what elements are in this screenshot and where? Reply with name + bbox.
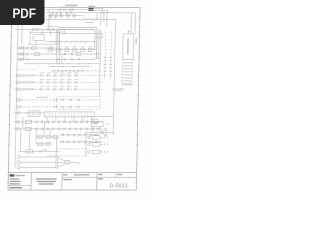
relay box K1 xyxy=(33,35,44,41)
low contact row 1 xyxy=(14,121,103,123)
left cell divider xyxy=(8,185,31,187)
drops below strip xyxy=(46,117,48,122)
left cell bottom text xyxy=(9,187,22,188)
zone tick marks on left and right border xyxy=(7,17,141,184)
wire: rung E xyxy=(15,28,60,30)
heater circuit row 3 xyxy=(16,88,19,91)
bus join line xyxy=(94,58,100,60)
vertical joining coil rows xyxy=(23,46,25,59)
row of boxes y137 xyxy=(36,136,59,138)
ticks right of device box xyxy=(105,123,107,125)
actuator row 1 xyxy=(88,136,91,139)
wire to terminal strip xyxy=(13,112,44,114)
contact rows extending right xyxy=(59,134,99,136)
wire: box row xyxy=(46,49,95,51)
slant contacts xyxy=(50,40,52,43)
company address lines xyxy=(10,178,20,179)
coil row 3 extension xyxy=(49,58,94,60)
tiny connector marks on cables xyxy=(104,57,107,59)
label above sensor rows xyxy=(36,97,48,98)
terminal strip TS1 xyxy=(44,112,95,117)
connector block on cable xyxy=(65,160,70,164)
cable conductors xyxy=(20,156,56,158)
coil row 2 xyxy=(17,53,59,55)
label above device box xyxy=(90,118,98,121)
extra rung under loop xyxy=(60,33,95,35)
sensor loop row 2 xyxy=(16,106,19,109)
faint note text right xyxy=(112,88,124,89)
tiny note under rung D xyxy=(86,22,94,23)
long right vertical wire xyxy=(113,19,115,134)
actuator row 3 xyxy=(87,151,90,154)
cable tail xyxy=(70,161,80,163)
title block outline xyxy=(8,172,136,174)
wire: rung C xyxy=(48,15,84,17)
scan speckle noise xyxy=(10,11,138,187)
verticals mid xyxy=(56,44,58,64)
heater circuit row 2 xyxy=(16,81,19,84)
centre title text lines xyxy=(36,178,57,179)
cable terminal circles xyxy=(17,155,20,158)
lamp on strip feed xyxy=(17,112,20,115)
contacts on rung B xyxy=(51,12,53,14)
faint header text above frame xyxy=(65,5,78,7)
dashed terminal column below box xyxy=(122,59,125,85)
cable clamp xyxy=(55,156,57,169)
coil row 1 xyxy=(17,47,56,49)
cable loop inner xyxy=(59,29,95,50)
junction dots on rung B xyxy=(100,12,101,13)
stub above box xyxy=(127,30,129,34)
drawing frame border xyxy=(8,8,140,190)
inter-rung verticals top band xyxy=(51,13,53,16)
svg-text:D-5031: D-5031 xyxy=(110,183,128,189)
title block row line xyxy=(62,176,136,178)
ticks and label on row y151 xyxy=(39,150,41,152)
junction row y66.4 xyxy=(49,65,90,67)
label text above rung A xyxy=(61,7,75,8)
wire: rung G xyxy=(28,43,60,45)
wire: rung B xyxy=(46,12,112,14)
right vertical feeders xyxy=(130,13,132,34)
heater circuit row 1 xyxy=(16,74,19,77)
tiny text right of tall box xyxy=(135,38,137,45)
page background xyxy=(0,0,149,198)
ground cluster xyxy=(104,128,107,131)
cable loop outer xyxy=(57,28,97,59)
verticals lower-left xyxy=(19,129,21,152)
wire under badge edge xyxy=(46,25,58,27)
dark terminal blocks TB1 xyxy=(88,8,93,9)
left dash stubs xyxy=(16,68,35,70)
wire to right bus xyxy=(112,12,135,14)
small component boxes on rung C xyxy=(50,14,52,17)
pilot lamps on rung E xyxy=(32,28,34,30)
tall device box U1 xyxy=(123,34,134,60)
coil row 2 extension to bus xyxy=(60,53,101,55)
actuator row 2 xyxy=(88,143,91,146)
cable taper xyxy=(58,157,66,161)
wires fanning from terminal blocks xyxy=(93,8,102,10)
device box B1 xyxy=(91,122,103,127)
left junction box xyxy=(28,111,40,117)
wire across to right vertical xyxy=(85,116,114,118)
component boxes row xyxy=(49,48,53,51)
wire: slant contact row xyxy=(46,41,95,43)
dashed enclosure box xyxy=(57,97,101,110)
verticals upper-left xyxy=(21,25,23,44)
wire: dotted junction row xyxy=(24,63,101,65)
low contact row 2 xyxy=(13,128,102,130)
junction box after loop xyxy=(97,33,102,38)
dashed runs xyxy=(57,148,88,150)
row of boxes y144 xyxy=(36,143,52,145)
dash-dot vertical cables xyxy=(105,32,106,80)
verticals between low rows xyxy=(22,117,24,129)
loop right bus xyxy=(97,30,100,59)
wire with meter circle xyxy=(85,131,113,133)
row y151 xyxy=(19,150,59,152)
left rail xyxy=(15,25,18,167)
PDF badge xyxy=(0,0,45,25)
company logo xyxy=(10,174,15,176)
wire: rung D xyxy=(46,18,116,20)
left vertical of lower cluster xyxy=(85,132,87,156)
wire: top rung A xyxy=(46,9,94,11)
contacts on rung A xyxy=(58,9,60,11)
svg-text:PDF: PDF xyxy=(12,6,36,21)
vertical drop wires from top rungs xyxy=(48,10,50,28)
sensor loop row 1 xyxy=(16,99,19,102)
drawn/checked labels xyxy=(63,174,67,175)
wire: contact row y71 xyxy=(51,70,87,72)
scale and sheet labels xyxy=(98,174,103,175)
title block vertical dividers xyxy=(30,173,32,191)
coil row 3 xyxy=(17,58,49,60)
vertical label in box xyxy=(127,39,129,55)
ticks on rung D xyxy=(83,18,85,20)
wire: rung F xyxy=(30,32,60,34)
